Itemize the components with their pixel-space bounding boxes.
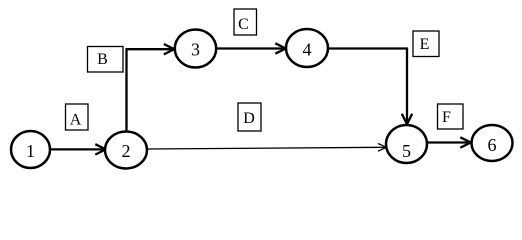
- node 3: [175, 30, 216, 68]
- svg-text:B: B: [97, 51, 108, 68]
- node 4: [286, 29, 328, 67]
- arrow F (node 5 to node 6, thick): [427, 137, 471, 147]
- node 1: [11, 131, 50, 168]
- svg-text:C: C: [238, 16, 249, 33]
- svg-text:4: 4: [303, 39, 312, 59]
- svg-text:F: F: [442, 109, 451, 126]
- label box E: [413, 31, 439, 57]
- node 5: [386, 125, 427, 163]
- svg-text:5: 5: [402, 141, 411, 161]
- svg-text:2: 2: [122, 141, 131, 161]
- arrow C (node 3 to node 4, thick): [216, 43, 286, 53]
- label box D: [238, 103, 261, 131]
- svg-text:A: A: [70, 112, 82, 129]
- svg-text:3: 3: [191, 39, 200, 59]
- svg-text:6: 6: [488, 135, 497, 155]
- arrow A (node 1 to node 2, thick): [50, 144, 106, 154]
- arrow E (node 4 right then down to node 5, thick): [328, 49, 412, 125]
- svg-text:D: D: [243, 110, 255, 127]
- arrow D (node 2 to node 5, thin): [147, 144, 387, 152]
- svg-text:E: E: [420, 36, 430, 53]
- node 6: [472, 125, 513, 161]
- svg-text:1: 1: [26, 141, 35, 161]
- arrow B (node 2 up then right to node 3, thick): [127, 44, 175, 132]
- label box F: [438, 104, 464, 129]
- node 2: [105, 132, 147, 169]
- label box C: [234, 9, 257, 35]
- label box B: [88, 47, 124, 73]
- label box A: [66, 104, 89, 130]
